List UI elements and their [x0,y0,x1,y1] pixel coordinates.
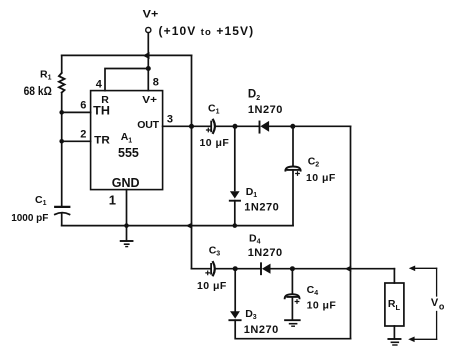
diode D2 triangle [260,121,269,132]
diode D3 wire top [234,269,236,312]
capacitor C2 plus sign [296,172,300,176]
resistor R_L box [385,283,404,326]
junction dot pin 1 ground [124,223,129,228]
wire D4 to R_L corner [271,268,395,270]
capacitor C1 10uF right plate [213,120,215,133]
junction marker right vertical at lower row [345,266,352,272]
svg-text:1000 pF: 1000 pF [11,213,48,224]
capacitor C4 top plate [285,294,300,298]
diode D3 bar [229,319,240,321]
wire OUT drive vertical [191,55,193,268]
wire C2 bottom to ground rail [292,170,294,226]
wire right vertical (plus rail down) [350,126,352,338]
svg-text:10 μF: 10 μF [306,172,336,184]
diode D1 wire top [234,126,236,190]
svg-text:GND: GND [112,176,140,190]
wire C4 bottom to ground [291,297,293,320]
junction dot C3/D4/D3 node [233,266,238,271]
diode D2 bar [259,122,261,133]
svg-text:(+10V to +15V): (+10V to +15V) [159,24,255,38]
wire pin 6 TH [62,111,91,113]
wire D2 to C2 node and corner [269,125,350,127]
capacitor C2 bottom plate [287,169,298,171]
junction dot TR tap [59,139,64,144]
capacitor C2 top plate [285,167,300,171]
svg-text:TR: TR [94,135,110,147]
svg-text:3: 3 [167,114,173,126]
junction dot D2/C2 node [290,124,295,129]
svg-text:1N270: 1N270 [244,324,279,336]
resistor R1 [59,73,65,93]
wire feedback rail (OUT to R1 top) [62,54,192,56]
junction dot D4/C4 node [290,266,295,271]
Vo bracket top arrow [414,267,437,269]
wire V+ vertical to pins 4/8 [147,33,149,91]
junction dot OUT row at drive vertical [189,124,194,129]
svg-text:V+: V+ [142,94,157,106]
V+ supply terminal [146,27,151,32]
svg-text:1: 1 [109,193,116,208]
Vo bracket bottom arrow [414,338,437,340]
capacitor C3 left plate [210,264,212,274]
capacitor C4 plus sign [295,300,299,304]
Vo bracket vertical lower [436,312,438,340]
svg-text:555: 555 [118,146,139,160]
capacitor C1 10uF left plate [210,122,212,132]
wire ground rail [62,225,293,227]
svg-text:6: 6 [80,99,86,111]
wire C1 bottom to ground rail [61,214,63,226]
ground symbol below R_L [388,338,400,340]
junction marker drive vertical crossing ground rail [186,223,193,229]
capacitor C2 wire top [292,126,294,166]
wire to R_L [393,269,395,283]
ground symbol below C4 [285,319,300,321]
capacitor C4 wire top [291,269,293,294]
capacitor C1 1000pF bottom plate [55,213,70,215]
wire D3 bottom return line [235,320,350,339]
wire left vertical upper [61,55,63,73]
wire pin 1 [126,190,128,226]
diode D4 bar [260,263,262,274]
capacitor C3 plus sign [206,271,210,275]
diode D3 triangle [230,311,240,318]
svg-text:R: R [101,94,109,106]
svg-text:10 μF: 10 μF [307,299,337,311]
ground symbol below pin 1 [126,226,128,241]
capacitor C1 10uF plus sign [207,128,211,132]
diode D1 triangle [230,191,240,198]
IC A1 555 box [91,91,163,190]
svg-text:1N270: 1N270 [248,104,283,116]
capacitor C3 right plate [213,262,215,275]
diode D4 triangle [262,264,271,274]
svg-text:10 μF: 10 μF [200,137,230,149]
wire pin 2 TR [62,140,91,142]
junction marker V+ crossing feedback rail [143,52,150,59]
wire C3 to D4 [216,268,262,270]
wire C1 to D2 [216,125,260,127]
junction dot pins 4/8 node [146,66,151,71]
svg-text:V+: V+ [143,9,159,21]
wire pin 3 OUT [163,125,211,127]
svg-text:68 kΩ: 68 kΩ [24,86,52,98]
diode D1 wire bottom [234,201,236,226]
svg-text:4: 4 [96,78,103,90]
wire to pin 4 [105,69,148,91]
wire left vertical lower [61,93,63,207]
svg-text:8: 8 [153,76,159,88]
svg-text:OUT: OUT [137,119,159,131]
capacitor C4 bottom plate [287,296,298,298]
capacitor C1 1000pF top plate [55,206,69,208]
svg-text:1N270: 1N270 [244,202,279,214]
Vo bracket vertical upper [436,268,438,296]
wire R_L bottom [393,326,395,339]
svg-text:10 μF: 10 μF [197,280,227,292]
svg-text:1N270: 1N270 [248,247,283,259]
junction dot C1/D2/D1 node [233,124,238,129]
svg-text:2: 2 [80,128,86,140]
junction dot D1 ground rail [233,223,238,228]
diode D1 bar [230,200,240,202]
junction dot TH tap [59,110,64,115]
wire lower row from drive vertical [192,268,211,270]
svg-text:TH: TH [93,105,110,117]
